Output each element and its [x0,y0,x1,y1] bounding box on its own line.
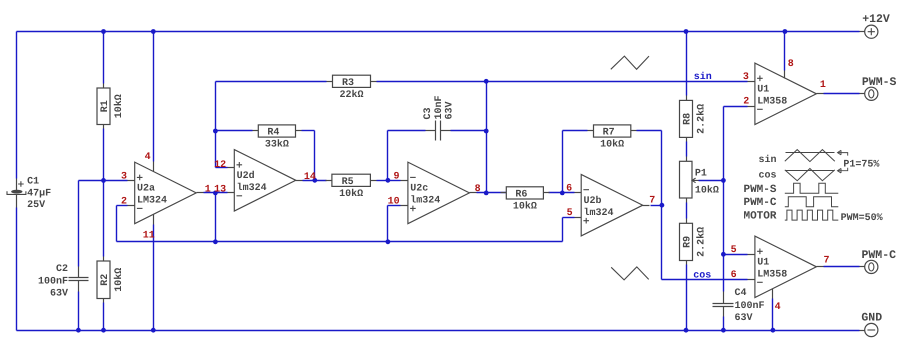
svg-text:R5: R5 [342,177,354,188]
svg-text:63V: 63V [445,101,456,119]
node junction 20 at (103.5,330.2) [101,328,106,333]
node junction 4 at (784.9,31.5) [783,29,788,34]
svg-text:7: 7 [649,195,655,206]
svg-text:C4: C4 [735,288,747,299]
wire C2 top (node to C2) [78,181,80,267]
svg-text:P1: P1 [695,168,707,179]
node junction 18 at (723.4,254.3) [721,252,726,257]
resistor R4 [253,130,259,132]
svg-text:U2b: U2b [584,195,602,207]
resistor R8 [686,96,688,101]
svg-text:R9: R9 [683,236,694,248]
svg-text:33kΩ: 33kΩ [265,139,289,151]
node junction 17 at (723.4,180.4) [721,178,726,183]
icon triangle wave near cos [611,267,649,280]
op-amp U2b [581,174,643,236]
wire R3 right row [377,81,487,83]
wire PWM-S output [824,93,860,95]
svg-text:100nF: 100nF [735,301,765,312]
node junction 12 at (486.2,81.3) [484,79,489,84]
svg-text:PWM-C: PWM-C [862,249,897,262]
capacitor C1 [16,179,18,191]
svg-text:P1=75%: P1=75% [843,159,879,170]
node junction 9 at (314.8,180.3) [312,178,317,183]
svg-text:5: 5 [567,208,573,219]
wire U2c output [477,192,507,194]
wire R4 right drop [314,131,316,181]
svg-text:R3: R3 [342,78,354,89]
terminal PWM-C [865,260,878,273]
wire sin row [487,81,748,83]
diagram sin waveform [785,150,835,162]
wire U2b out down to cos [661,206,663,280]
wire node to R2 top [103,181,105,257]
terminal +12V [865,25,878,38]
svg-text:LM324: LM324 [137,196,167,207]
wire sin vertical (R3/C3/U2c out) [486,82,488,193]
svg-text:1: 1 [820,80,826,91]
wire U2d output [303,180,327,182]
svg-text:R7: R7 [603,128,615,139]
op-amp U2c [408,162,470,224]
node junction 5 at (103.5,180.4) [101,178,106,183]
node junction 7 at (215.4,192.9) [213,191,218,196]
wire R1 top (rail to R1) [103,32,105,84]
svg-text:25V: 25V [27,200,45,211]
node junction 21 at (153.3,330.2) [151,328,156,333]
svg-text:2.2kΩ: 2.2kΩ [696,104,708,134]
resistor R7 [588,130,594,132]
wire R4 right row [302,130,315,132]
wire U2b output [651,205,662,207]
svg-text:10kΩ: 10kΩ [513,201,537,213]
svg-text:6: 6 [731,270,737,281]
wire GND bottom rail [17,330,860,332]
wire U2a pin11 to rail [153,225,155,331]
resistor R9 [686,219,688,224]
diagram MOTOR waveform [785,210,839,220]
op-amp U1 comparator sin [755,63,817,125]
svg-text:3: 3 [121,172,127,183]
node junction 24 at (772.9,330.2) [771,328,776,333]
svg-text:cos: cos [693,270,711,281]
svg-text:cos: cos [758,170,776,181]
svg-text:5: 5 [731,245,737,256]
wire C2 bottom to rail [78,292,80,331]
wire R3/R4 left vertical [215,82,217,168]
wire left rail lower (C1 to GND) [16,208,18,331]
node junction 14 at (486.2,192.9) [484,191,489,196]
diagram cos threshold line [786,170,835,172]
svg-text:R8: R8 [683,113,694,125]
terminal PWM-S [865,87,878,100]
wire R7 left drop [562,131,564,193]
terminal GND [865,323,878,336]
svg-text:6: 6 [566,184,572,195]
wire R3 left row [216,81,327,83]
wire R8 top (rail down) [686,32,688,96]
svg-text:U2c: U2c [410,184,428,195]
node junction 15 at (562.3,192.9) [560,191,565,196]
wire U2c pin9 stub wire [388,180,401,182]
resistor R6 [501,192,507,194]
svg-text:13: 13 [214,185,226,196]
wire R6 right [549,192,575,194]
resistor R3 [327,81,333,83]
wire R7 left row [563,130,588,132]
node junction 6 at (215.4,131.0) [213,129,218,134]
wire node1-13 drop to bus [215,193,217,242]
svg-text:R2: R2 [100,274,111,286]
stub PWM-C terminal [860,266,865,268]
wire U2a output [204,192,228,194]
wire C3 left row [388,130,426,132]
wire left rail upper (C1 to +12V) [16,32,18,179]
wire Vref bus [117,241,563,243]
svg-text:R6: R6 [515,190,527,201]
svg-text:LM358: LM358 [757,97,787,108]
capacitor C4 [723,292,725,304]
stub +12V terminal [860,31,865,33]
svg-text:GND: GND [861,311,882,324]
capacitor C3 [426,130,436,132]
svg-text:11: 11 [143,231,155,242]
svg-text:PWM-S: PWM-S [743,184,776,196]
stub U1 pin8 [784,71,786,79]
wire U1 pin4 to rail [772,299,774,331]
stub U2a pin11 [153,215,155,225]
wire P1 wiper to node [699,180,724,182]
svg-text:lm324: lm324 [237,182,267,194]
svg-text:PWM-S: PWM-S [862,76,897,89]
svg-text:10kΩ: 10kΩ [113,268,125,292]
wire U2b pin5 riser [562,218,564,242]
node junction 2 at (153.3,31.5) [151,29,156,34]
wire P1 to R9 [686,203,688,219]
svg-text:10: 10 [388,197,400,208]
op-amp U2a [135,162,197,224]
svg-text:63V: 63V [735,313,753,324]
node junction 11 at (387.9,241.8) [386,239,391,244]
svg-text:R4: R4 [267,128,279,139]
svg-text:9: 9 [393,172,399,183]
op-amp U2d [234,150,295,212]
wire U2a pin2 drop [116,206,118,242]
stub GND terminal [860,330,865,332]
stub U2a pin4 [153,162,155,172]
wire U2a pin2 row [117,205,128,207]
svg-text:U2d: U2d [237,170,255,182]
wire R9 bottom to rail [686,265,688,331]
diagram PWM-S waveform [785,183,839,193]
node junction 13 at (486.2,131.0) [484,129,489,134]
wire U2b pin5 row [563,217,575,219]
svg-text:2.2kΩ: 2.2kΩ [696,227,708,257]
svg-text:U1: U1 [757,85,769,96]
svg-text:8: 8 [475,184,481,195]
svg-text:U1: U1 [757,258,769,269]
wire U2a pin4 (rail down) [153,32,155,162]
stub PWM-S terminal [860,93,865,95]
wire R7 right row [637,130,662,132]
diagram PWM-C waveform [785,197,839,207]
resistor R1 [103,84,105,89]
svg-text:sin: sin [758,154,776,166]
svg-text:8: 8 [788,59,794,70]
resistor R5 [326,180,332,182]
node junction 23 at (723.4,330.2) [721,328,726,333]
svg-text:4: 4 [145,152,151,163]
wire U2c pin10 drop [387,206,389,242]
svg-text:LM358: LM358 [757,270,787,281]
svg-text:2: 2 [121,197,127,208]
svg-text:U2a: U2a [137,184,155,195]
stub U1 pin4 [772,289,774,299]
wire U1 pin5 row [724,254,748,256]
node junction 8 at (215.4,241.8) [213,239,218,244]
potentiometer P1 [686,157,688,162]
svg-text:14: 14 [304,172,316,183]
node junction 3 at (686.0,31.5) [684,29,689,34]
svg-text:sin: sin [694,71,712,83]
svg-text:100nF: 100nF [38,276,68,287]
svg-text:PWM-C: PWM-C [743,197,776,209]
wire R1 bottom to node [103,129,105,181]
node junction 1 at (103.5,31.5) [101,29,106,34]
node junction 16 at (661.9,205.2) [660,203,665,208]
svg-text:10kΩ: 10kΩ [695,184,719,196]
svg-text:10nF: 10nF [434,95,445,119]
svg-text:lm324: lm324 [584,207,614,219]
wire PWM-C output [824,266,860,268]
icon triangle wave near sin [611,56,649,69]
wire U2d pin12 row [216,167,228,169]
wire C4 bottom to rail [723,317,725,331]
capacitor C2 [78,267,80,278]
wire U2c pin10 row [388,205,401,207]
svg-text:10kΩ: 10kΩ [600,139,624,151]
svg-text:MOTOR: MOTOR [743,211,776,223]
wire U2a pin3 row [79,180,128,182]
node junction 10 at (387.9,180.3) [386,178,391,183]
diagram P1 marker upper [838,150,848,155]
wire R4 left row [216,130,253,132]
wire C3 right row [451,130,487,132]
wire R8 bottom to P1 [686,142,688,157]
node junction 19 at (78.4,330.2) [76,328,81,333]
svg-text:63V: 63V [50,289,68,300]
svg-text:2: 2 [743,97,749,108]
wire R2 bottom to rail [103,303,105,331]
wire C3 left vertical [387,131,389,181]
svg-text:4: 4 [775,302,781,313]
svg-text:1: 1 [205,184,211,195]
svg-text:C1: C1 [27,177,39,188]
wire R7 right drop [661,131,663,206]
wire +12V top rail [17,31,860,33]
svg-text:12: 12 [214,160,226,171]
svg-text:lm324: lm324 [410,195,440,207]
svg-text:+12V: +12V [862,13,890,26]
svg-text:R1: R1 [100,100,111,112]
svg-text:47µF: 47µF [27,188,51,199]
wire R5 right [377,180,388,182]
resistor R2 [103,257,105,261]
diagram cos waveform [785,169,835,181]
svg-text:C3: C3 [423,107,434,119]
svg-text:C2: C2 [56,264,68,275]
op-amp U1 comparator cos [755,236,817,297]
svg-text:10kΩ: 10kΩ [339,188,363,200]
diagram sin threshold line [786,152,835,154]
svg-text:10kΩ: 10kΩ [113,94,125,118]
wire cos row [662,279,748,281]
wire wiper vertical (pin2 to C4) [723,107,725,292]
wire U1 pin2 row [724,106,748,108]
wire U1 pin8 (rail down) [784,32,786,71]
node junction 22 at (686.0,330.2) [684,328,689,333]
diagram P1 marker lower [838,168,848,173]
svg-text:22kΩ: 22kΩ [339,89,363,101]
svg-text:7: 7 [824,255,830,266]
svg-text:PWM=50%: PWM=50% [841,213,883,224]
svg-text:3: 3 [743,72,749,83]
